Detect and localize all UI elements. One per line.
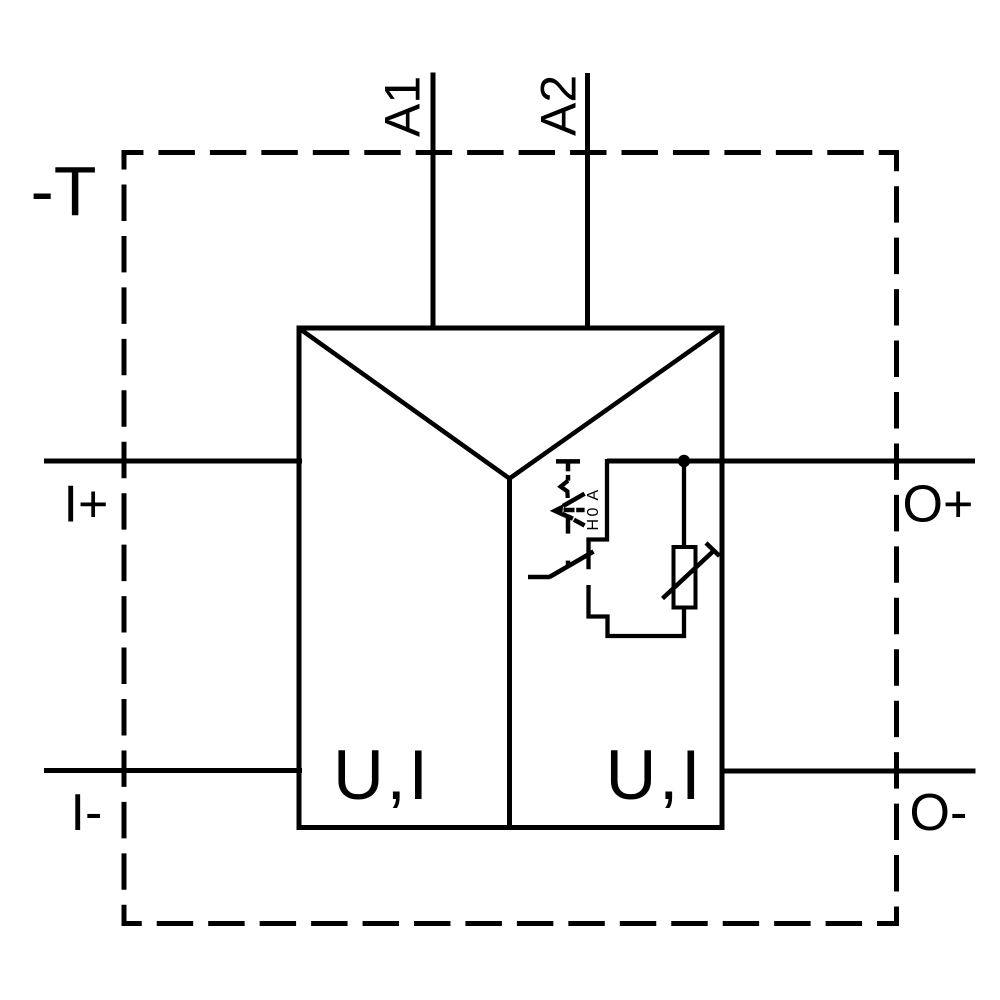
svg-text:0: 0 (585, 508, 602, 517)
svg-text:H: H (585, 519, 602, 531)
wire I- (44, 768, 302, 773)
adjust arrow shaft solid (563, 494, 585, 506)
wire O+ (607, 459, 975, 464)
svg-text:U,I: U,I (333, 735, 431, 814)
arrow dash horizontal 1 (564, 508, 575, 513)
dashed enclosure border -T (124, 153, 897, 924)
resistor R1 body (674, 547, 696, 608)
svg-text:A1: A1 (375, 76, 431, 137)
node junction dot on O+ wire (678, 455, 690, 467)
linkage dash 1 (566, 475, 571, 481)
svg-text:A2: A2 (531, 75, 587, 136)
linkage top T-bar (556, 459, 580, 464)
svg-text:U,I: U,I (606, 735, 704, 814)
resistor R1 adjust diagonal (663, 551, 714, 599)
resistor R1 adjust T-bar (706, 543, 720, 556)
svg-text:-T: -T (31, 152, 97, 230)
transducer box U1 (299, 328, 722, 828)
svg-text:O-: O- (910, 784, 968, 842)
svg-text:I-: I- (71, 784, 103, 842)
terminal line A2 (585, 73, 590, 331)
svg-text:O+: O+ (903, 476, 974, 534)
arrow dash diagonal 1 (562, 514, 573, 519)
wire varistor top lead (682, 463, 686, 548)
wire switch branch lower (589, 585, 685, 636)
switch S1 lead (528, 575, 550, 580)
wire I+ (44, 459, 302, 464)
V divider left diagonal (300, 329, 510, 479)
terminal line A1 (431, 73, 436, 331)
linkage tick (566, 461, 571, 471)
arrow dash horizontal 2 (576, 508, 584, 513)
adjust arrow head (551, 505, 563, 516)
svg-text:A: A (585, 490, 602, 501)
linkage dash 2 (566, 561, 571, 567)
center divider line (507, 477, 512, 827)
V divider right diagonal (510, 329, 722, 479)
wire switch branch upper (589, 459, 608, 569)
arrow dash diagonal 2 (574, 520, 585, 526)
wire O- (720, 769, 976, 774)
svg-text:I+: I+ (64, 476, 109, 534)
switch S1 blade (550, 552, 594, 578)
linkage dash long (566, 515, 571, 534)
linkage zigzag (561, 481, 568, 498)
